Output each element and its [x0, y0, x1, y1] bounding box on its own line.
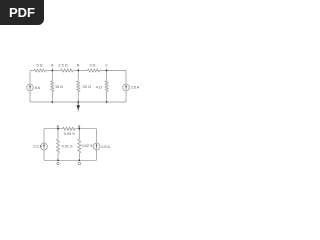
svg-text:B: B [77, 63, 80, 67]
svg-text:C: C [105, 63, 108, 67]
svg-text:A: A [51, 63, 54, 67]
svg-text:9 Ω: 9 Ω [89, 64, 95, 68]
svg-text:0.5 A: 0.5 A [101, 145, 110, 149]
svg-text:20 Ω: 20 Ω [83, 85, 91, 89]
svg-text:0.02 S: 0.02 S [82, 144, 93, 148]
svg-text:0.05 S: 0.05 S [64, 132, 75, 136]
svg-text:2.5 Ω: 2.5 Ω [58, 64, 67, 68]
svg-text:0.01 S: 0.01 S [62, 145, 73, 149]
svg-text:2.5 A: 2.5 A [131, 85, 140, 89]
svg-text:5 Ω: 5 Ω [36, 64, 42, 68]
svg-text:A: A [57, 124, 60, 128]
svg-text:4 Ω: 4 Ω [96, 85, 102, 89]
svg-text:8 A: 8 A [35, 86, 41, 90]
svg-text:B: B [78, 124, 81, 128]
svg-text:15 Ω: 15 Ω [55, 85, 63, 89]
svg-text:0.2 A: 0.2 A [33, 145, 42, 149]
